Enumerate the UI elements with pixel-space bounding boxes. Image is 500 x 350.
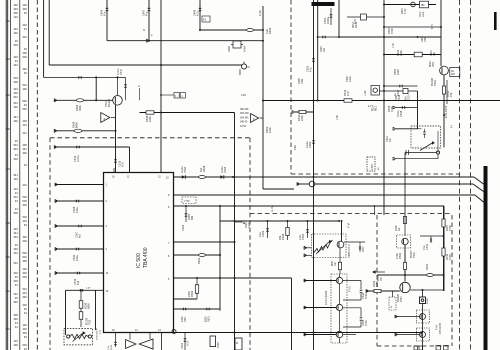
svg-text:0,22u: 0,22u (180, 166, 184, 173)
svg-text:IC 500: IC 500 (136, 253, 142, 268)
svg-text:304 341: 304 341 (240, 116, 249, 119)
svg-text:6800: 6800 (87, 303, 91, 309)
svg-text:220k: 220k (300, 115, 304, 121)
svg-text:C503: C503 (306, 65, 310, 72)
svg-text:301: 301 (13, 63, 18, 67)
svg-text:501: 501 (22, 287, 27, 291)
svg-text:C522: C522 (246, 222, 248, 228)
svg-text:303: 303 (22, 7, 27, 11)
svg-text:18k: 18k (278, 235, 282, 240)
svg-text:307: 307 (451, 73, 456, 76)
svg-text:303: 303 (22, 239, 27, 243)
svg-text:401: 401 (22, 123, 27, 127)
svg-text:1,9V: 1,9V (336, 115, 339, 120)
svg-text:10k: 10k (76, 280, 80, 285)
svg-text:304: 304 (13, 247, 18, 251)
svg-text:L505: L505 (216, 342, 220, 348)
svg-text:4,7u: 4,7u (186, 340, 190, 346)
svg-text:6792-005.8f: 6792-005.8f (446, 105, 448, 118)
svg-text:340 45: 340 45 (240, 121, 248, 124)
svg-text:47u: 47u (389, 137, 392, 142)
svg-text:10u: 10u (433, 51, 436, 56)
svg-text:401: 401 (13, 251, 18, 255)
svg-text:T510: T510 (412, 252, 416, 258)
svg-text:43 54: 43 54 (240, 125, 247, 128)
svg-text:220k: 220k (399, 50, 403, 56)
svg-text:4,7V: 4,7V (354, 19, 357, 24)
svg-text:C519: C519 (420, 11, 422, 17)
svg-text:504: 504 (22, 251, 27, 255)
svg-text:94 7L0-49084: 94 7L0-49084 (326, 290, 328, 305)
svg-text:0,47u: 0,47u (76, 155, 80, 162)
svg-text:403: 403 (22, 3, 27, 7)
svg-text:341: 341 (22, 131, 27, 135)
svg-text:503: 503 (6, 168, 11, 171)
svg-text:403: 403 (22, 331, 27, 335)
svg-text:301: 301 (13, 87, 18, 91)
svg-text:303: 303 (13, 317, 18, 321)
svg-text:1k0: 1k0 (199, 167, 203, 172)
svg-text:301: 301 (22, 291, 27, 295)
svg-text:2,2u: 2,2u (298, 234, 302, 240)
svg-text:100u: 100u (75, 255, 79, 261)
svg-text:402: 402 (22, 327, 27, 331)
svg-text:100u: 100u (423, 11, 425, 17)
svg-text:BC328: BC328 (87, 317, 89, 325)
svg-text:504: 504 (22, 195, 27, 199)
svg-text:780: 780 (421, 4, 426, 7)
svg-text:C526: C526 (111, 344, 113, 350)
svg-text:305: 305 (22, 259, 27, 263)
svg-text:470n: 470n (364, 320, 368, 326)
svg-text:C519: C519 (409, 94, 411, 100)
svg-text:302: 302 (22, 151, 27, 155)
svg-text:301: 301 (22, 35, 27, 39)
svg-text:R531: R531 (425, 263, 429, 270)
svg-text:302: 302 (22, 303, 27, 307)
svg-text:4700: 4700 (390, 28, 394, 34)
svg-text:4,7k: 4,7k (346, 90, 350, 96)
svg-text:M: M (248, 66, 250, 69)
svg-text:101: 101 (13, 339, 18, 343)
svg-text:7,5V: 7,5V (184, 199, 190, 203)
svg-text:M2,2: M2,2 (376, 105, 378, 111)
svg-text:101: 101 (13, 177, 18, 181)
svg-text:C502: C502 (181, 224, 185, 231)
svg-text:0,22u: 0,22u (349, 75, 352, 82)
svg-text:300 301: 300 301 (240, 108, 249, 111)
svg-text:BU126: BU126 (396, 294, 400, 302)
svg-text:401: 401 (13, 292, 18, 296)
svg-text:0,15u: 0,15u (396, 110, 400, 117)
svg-text:501: 501 (22, 83, 27, 87)
svg-text:303: 303 (13, 279, 18, 283)
svg-text:1k0: 1k0 (323, 47, 326, 52)
svg-text:101: 101 (13, 187, 18, 191)
svg-text:L508: L508 (372, 164, 374, 170)
svg-text:301: 301 (13, 27, 18, 31)
svg-text:502: 502 (22, 99, 27, 103)
svg-text:K1: K1 (203, 18, 207, 22)
svg-text:401: 401 (22, 183, 27, 187)
svg-text:T506: T506 (90, 319, 92, 325)
svg-text:402: 402 (22, 203, 27, 207)
svg-text:302: 302 (13, 91, 18, 95)
svg-text:302 303: 302 303 (240, 112, 249, 115)
svg-text:4700: 4700 (395, 253, 399, 259)
svg-text:0,47u: 0,47u (116, 68, 120, 75)
svg-text:0,1u: 0,1u (258, 231, 262, 237)
svg-text:4,7u: 4,7u (121, 161, 125, 167)
svg-text:341: 341 (22, 147, 27, 151)
svg-text:303: 303 (13, 43, 18, 47)
svg-text:504: 504 (13, 76, 18, 80)
svg-text:BC248: BC248 (107, 99, 111, 107)
svg-text:860k: 860k (75, 122, 79, 128)
svg-text:302: 302 (6, 94, 11, 97)
svg-text:R407: R407 (400, 7, 404, 14)
svg-text:304: 304 (13, 271, 18, 275)
svg-text:301: 301 (6, 290, 11, 293)
svg-text:11,4V: 11,4V (271, 206, 274, 212)
svg-text:402: 402 (22, 267, 27, 271)
svg-text:4,4M: 4,4M (243, 46, 247, 52)
svg-text:4700: 4700 (448, 225, 452, 231)
svg-text:500: 500 (13, 211, 18, 215)
svg-text:2200: 2200 (396, 69, 400, 75)
svg-text:470n: 470n (364, 293, 368, 299)
svg-text:C500: C500 (323, 17, 327, 24)
svg-text:235102-86: 235102-86 (440, 322, 442, 334)
svg-text:X490: X490 (227, 45, 231, 52)
svg-text:R520: R520 (378, 275, 380, 281)
svg-text:C495: C495 (100, 9, 104, 16)
svg-text:501: 501 (13, 143, 18, 147)
svg-text:305: 305 (22, 143, 27, 147)
svg-text:B490: B490 (238, 68, 242, 75)
svg-text:340: 340 (22, 295, 27, 299)
svg-text:C497: C497 (142, 9, 146, 16)
svg-text:8200: 8200 (205, 316, 208, 322)
svg-text:501: 501 (13, 95, 18, 99)
svg-text:+12V: +12V (364, 90, 367, 96)
svg-text:2200: 2200 (187, 291, 191, 297)
svg-text:303: 303 (13, 157, 18, 161)
svg-text:502: 502 (6, 20, 11, 23)
svg-text:340: 340 (22, 67, 27, 71)
svg-text:R504: R504 (197, 257, 201, 264)
svg-text:1,2V: 1,2V (392, 43, 395, 48)
svg-text:302: 302 (6, 58, 11, 61)
svg-text:R504: R504 (430, 61, 432, 67)
svg-text:340: 340 (6, 222, 11, 225)
svg-text:R514: R514 (373, 105, 375, 111)
svg-text:101: 101 (13, 15, 18, 19)
svg-text:503: 503 (22, 199, 27, 203)
svg-text:301: 301 (13, 147, 18, 151)
svg-text:1500: 1500 (424, 36, 427, 42)
svg-text:501: 501 (13, 101, 18, 105)
svg-text:401: 401 (22, 219, 27, 223)
svg-text:402: 402 (22, 323, 27, 327)
svg-text:390k: 390k (78, 105, 82, 111)
svg-text:301: 301 (13, 195, 18, 199)
svg-text:4,7V: 4,7V (432, 24, 434, 29)
svg-text:302: 302 (22, 23, 27, 27)
svg-text:3,9V: 3,9V (241, 94, 246, 97)
svg-text:4700: 4700 (448, 254, 452, 260)
svg-text:100k: 100k (301, 78, 304, 84)
svg-text:C521: C521 (180, 342, 184, 349)
svg-text:1,5V: 1,5V (86, 288, 91, 290)
svg-text:100u: 100u (75, 207, 79, 213)
svg-text:F IV: F IV (435, 325, 439, 330)
svg-text:306: 306 (13, 343, 18, 347)
svg-text:302: 302 (22, 235, 27, 239)
svg-text:301: 301 (13, 227, 18, 231)
svg-text:F V: F V (99, 330, 102, 334)
svg-text:402: 402 (22, 87, 27, 91)
svg-text:0,8V: 0,8V (294, 145, 297, 150)
svg-text:403: 403 (13, 55, 18, 59)
svg-text:306: 306 (13, 80, 18, 84)
svg-text:R511: R511 (184, 316, 187, 322)
svg-text:4700: 4700 (390, 106, 394, 112)
svg-text:R496: R496 (268, 27, 272, 34)
svg-text:47u: 47u (422, 245, 426, 250)
svg-text:0,22u: 0,22u (305, 141, 309, 148)
svg-text:503: 503 (22, 275, 27, 279)
svg-text:R515: R515 (208, 316, 211, 322)
svg-text:TBA 4f00: TBA 4f00 (143, 247, 149, 268)
svg-text:220k: 220k (394, 95, 398, 101)
svg-text:306: 306 (22, 51, 27, 55)
svg-text:503: 503 (22, 343, 27, 347)
svg-text:501: 501 (22, 255, 27, 259)
svg-text:1200: 1200 (375, 281, 379, 287)
svg-text:402: 402 (13, 3, 18, 7)
svg-text:4u7: 4u7 (78, 233, 82, 238)
svg-text:8/10R: 8/10R (427, 298, 429, 304)
svg-text:503: 503 (22, 55, 27, 59)
svg-text:304: 304 (13, 7, 18, 11)
svg-text:304: 304 (22, 271, 27, 275)
svg-text:F VI: F VI (347, 223, 351, 228)
svg-text:341: 341 (13, 231, 18, 235)
svg-text:220k: 220k (148, 116, 152, 122)
svg-text:N: N (143, 28, 145, 32)
svg-text:302: 302 (13, 105, 18, 109)
svg-text:15k: 15k (449, 92, 453, 97)
svg-text:302: 302 (13, 31, 18, 35)
svg-text:C509: C509 (363, 246, 365, 252)
svg-text:74850-105.17: 74850-105.17 (349, 243, 351, 258)
svg-text:1k59: 1k59 (433, 61, 435, 67)
svg-text:302: 302 (6, 256, 11, 259)
svg-text:500: 500 (13, 11, 18, 15)
svg-text:340: 340 (13, 300, 18, 304)
svg-text:401: 401 (6, 328, 11, 331)
svg-text:R527: R527 (332, 260, 334, 266)
svg-text:4700: 4700 (181, 316, 184, 322)
svg-text:341: 341 (13, 173, 18, 177)
svg-text:301: 301 (13, 235, 18, 239)
svg-text:C496: C496 (193, 9, 197, 16)
svg-text:68k: 68k (190, 215, 194, 220)
svg-text:403: 403 (22, 119, 27, 123)
svg-text:6,3V: 6,3V (258, 10, 262, 16)
svg-text:F VII: F VII (348, 286, 352, 292)
svg-text:302: 302 (13, 119, 18, 123)
svg-text:305: 305 (13, 313, 18, 317)
svg-text:0,22u: 0,22u (220, 166, 224, 173)
svg-text:502: 502 (22, 107, 27, 111)
svg-text:502: 502 (22, 215, 27, 219)
svg-text:501: 501 (13, 261, 18, 265)
svg-text:400: 400 (6, 128, 11, 131)
svg-text:0,22u: 0,22u (249, 222, 251, 228)
svg-text:F I: F I (450, 125, 454, 128)
svg-text:BC238: BC238 (430, 78, 434, 86)
svg-text:100k: 100k (394, 225, 398, 231)
svg-text:100k: 100k (268, 127, 272, 133)
svg-text:M: M (236, 342, 238, 345)
svg-text:341: 341 (13, 115, 18, 119)
